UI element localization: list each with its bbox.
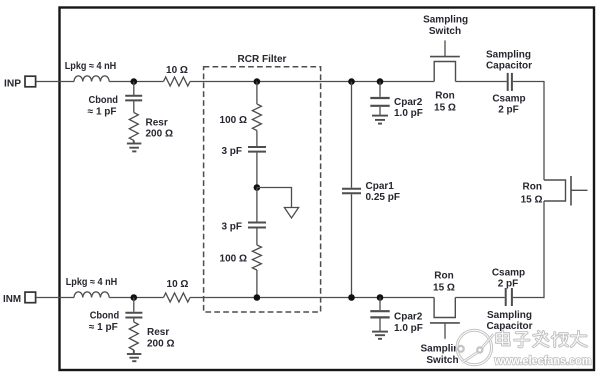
svg-text:Resr: Resr	[146, 118, 168, 129]
capacitor Csamp bottom	[506, 288, 512, 306]
svg-text:1.0 pF: 1.0 pF	[394, 108, 423, 119]
node junction dot top-left	[131, 78, 138, 85]
svg-text:INP: INP	[4, 79, 21, 90]
gate lead right MOSFET	[571, 189, 588, 191]
svg-text:10 Ω: 10 Ω	[166, 65, 188, 76]
node dot RCR bottom	[254, 294, 261, 301]
gate bar right MOSFET	[570, 176, 572, 206]
wire 10ohm to switch top	[190, 81, 434, 83]
wire switch to Csamp bottom	[455, 297, 504, 299]
wire Csamp to right corner bottom	[513, 297, 544, 299]
gate lead top switch	[444, 40, 446, 56]
capacitor Cpar2 bottom	[370, 298, 389, 331]
resistor Resr top	[129, 113, 138, 141]
capacitor Csamp top	[508, 73, 512, 91]
resistor 100 ohm top	[252, 104, 261, 131]
node dot Cpar2 bottom	[377, 294, 384, 301]
svg-text:Lpkg ≈ 4 nH: Lpkg ≈ 4 nH	[65, 61, 117, 72]
capacitor Cbond top	[125, 82, 142, 113]
ground under Resr bottom	[127, 350, 141, 361]
svg-text:2 pF: 2 pF	[498, 105, 519, 116]
wire to analog ground	[257, 188, 292, 208]
ground under Resr top	[127, 140, 141, 151]
ground under Cpar2 bottom	[372, 332, 388, 339]
svg-text:Sampling: Sampling	[486, 49, 531, 60]
svg-text:Lpkg ≈ 4 nH: Lpkg ≈ 4 nH	[66, 277, 118, 288]
svg-text:10 Ω: 10 Ω	[167, 279, 189, 290]
capacitor 3 pF bottom	[248, 223, 266, 228]
svg-text:3 pF: 3 pF	[221, 222, 242, 233]
capacitor Cbond bottom	[125, 298, 142, 323]
svg-text:15 Ω: 15 Ω	[521, 194, 543, 205]
svg-text:Cbond: Cbond	[90, 311, 120, 322]
svg-text:Cbond: Cbond	[89, 95, 119, 106]
svg-text:15 Ω: 15 Ω	[434, 102, 456, 113]
svg-text:Cpar2: Cpar2	[394, 97, 423, 108]
svg-text:Sampling: Sampling	[423, 15, 468, 26]
svg-text:Switch: Switch	[429, 26, 461, 37]
wire center to lower C	[256, 188, 258, 222]
svg-text:15 Ω: 15 Ω	[433, 282, 455, 293]
svg-text:Ron: Ron	[435, 90, 454, 101]
wire INM to inductor	[36, 297, 74, 299]
svg-text:2 pF: 2 pF	[498, 279, 519, 290]
svg-text:≈ 1 pF: ≈ 1 pF	[89, 322, 118, 333]
ground under Cpar2 top	[372, 116, 388, 124]
svg-text:3 pF: 3 pF	[221, 146, 242, 157]
capacitor Cpar1	[342, 82, 361, 298]
RCR Filter dashed box	[204, 67, 321, 312]
resistor 10 ohm bottom	[164, 293, 191, 302]
node dot Cpar1 top	[348, 78, 355, 85]
svg-text:Capacitor: Capacitor	[486, 321, 532, 332]
svg-text:Cpar2: Cpar2	[394, 312, 423, 323]
resistor 100 ohm bottom	[252, 245, 261, 270]
svg-text:Switch: Switch	[426, 355, 458, 366]
capacitor Cpar2 top	[370, 82, 389, 115]
resistor 10 ohm top	[164, 77, 191, 86]
svg-text:200 Ω: 200 Ω	[146, 129, 173, 140]
node dot Cpar1 bottom	[348, 294, 355, 301]
svg-text:Resr: Resr	[147, 327, 169, 338]
node junction dot bottom-left	[131, 294, 138, 301]
wire switch to Csamp top	[456, 81, 507, 83]
wire inductor to 10ohm top	[109, 81, 163, 83]
node dot Cpar2 top	[377, 78, 384, 85]
wire C to R bottom	[256, 229, 258, 246]
capacitor 3 pF top	[248, 147, 266, 152]
resistor Resr bottom	[129, 322, 138, 350]
svg-text:0.25 pF: 0.25 pF	[366, 192, 400, 203]
svg-text:200 Ω: 200 Ω	[147, 338, 174, 349]
svg-text:Ron: Ron	[523, 182, 542, 193]
svg-text:Capacitor: Capacitor	[486, 61, 532, 72]
svg-text:100 Ω: 100 Ω	[220, 254, 247, 265]
transistor sampling switch top (hump)	[434, 62, 455, 82]
wire INP to inductor	[36, 81, 74, 83]
svg-text:Sampling: Sampling	[487, 310, 532, 321]
wire RCR top stub	[256, 82, 258, 105]
wire inductor to 10ohm bottom	[109, 297, 163, 299]
wire R to C	[256, 131, 258, 147]
svg-text:www.elecfans.com: www.elecfans.com	[494, 356, 592, 368]
wire right vertical upper	[543, 81, 545, 180]
watermark chinese characters (simplified strokes)	[497, 331, 587, 347]
wire right vertical lower	[543, 201, 545, 298]
transistor sampling switch bottom (hump down)	[434, 298, 455, 318]
svg-text:Ron: Ron	[434, 271, 453, 282]
node dot RCR top	[254, 78, 261, 85]
svg-text:RCR Filter: RCR Filter	[238, 54, 287, 65]
ground triangle (RCR)	[284, 208, 298, 219]
inductor Lpkg top	[74, 76, 109, 82]
INP terminal box	[25, 76, 36, 87]
svg-text:≈ 1 pF: ≈ 1 pF	[88, 107, 117, 118]
svg-text:Csamp: Csamp	[492, 93, 525, 104]
gate bar bottom switch	[430, 322, 460, 324]
wire C to center node	[256, 153, 258, 188]
gate lead bottom switch	[444, 323, 446, 339]
transistor right MOSFET channel	[544, 180, 566, 201]
svg-text:Cpar1: Cpar1	[366, 181, 395, 192]
wire 10ohm to switch bottom	[190, 297, 434, 299]
node center dot	[254, 184, 261, 191]
INM terminal box	[25, 292, 36, 303]
svg-text:100 Ω: 100 Ω	[220, 115, 247, 126]
wire Csamp to right corner top	[513, 81, 544, 83]
svg-text:1.0 pF: 1.0 pF	[394, 323, 423, 334]
inductor Lpkg bottom	[74, 292, 109, 298]
gate bar top switch	[430, 56, 460, 58]
svg-text:INM: INM	[3, 294, 21, 305]
wire R to bottom rail	[256, 270, 258, 298]
watermark logo circle	[457, 330, 494, 365]
svg-text:Csamp: Csamp	[492, 268, 525, 279]
